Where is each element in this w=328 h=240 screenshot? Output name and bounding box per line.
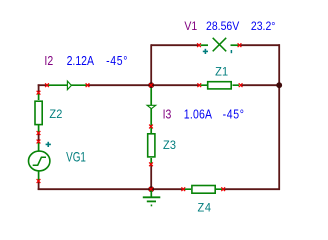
svg-text:28.56V: 28.56V (206, 20, 240, 33)
terminal mark VG1 top (37, 140, 41, 144)
svg-text:I2: I2 (44, 53, 53, 68)
wire below VG1 to bottom corner (38, 182, 40, 191)
terminal mark Z4 left (181, 187, 185, 191)
terminal mark I2 right (86, 83, 90, 87)
wire vertical from top corner down to mid junction (150, 44, 152, 85)
wire left rail top (corner to Z2) (38, 84, 40, 92)
wire top right horizontal (V1 to right rail) (240, 44, 280, 46)
svg-text:Z2: Z2 (49, 108, 62, 122)
svg-text:23.2°: 23.2° (251, 20, 276, 33)
junction dot bottom (148, 186, 154, 192)
svg-text:VG1: VG1 (66, 149, 86, 165)
wire mid between I2 and junction (88, 84, 152, 86)
svg-text:Z3: Z3 (163, 139, 176, 153)
terminal mark Z1 right (239, 83, 243, 87)
wire bottom right (Z4 to right rail) (223, 188, 280, 190)
V1 plus sign (203, 49, 208, 54)
current arrow I3 (147, 86, 156, 126)
current arrow I2 (47, 81, 88, 90)
terminal mark I3 bottom / Z3 top (149, 125, 153, 129)
terminal mark VG1 bottom (37, 179, 41, 183)
resistor Z3 (148, 126, 155, 164)
svg-text:2.12A: 2.12A (67, 53, 94, 68)
wire between Z3 and bottom junction (150, 164, 152, 190)
svg-text:-45°: -45° (223, 106, 245, 121)
wire mid between Z1 and right rail (241, 84, 280, 86)
resistor Z2 (35, 93, 42, 132)
VG1 plus sign (46, 142, 51, 147)
wire bottom left (corner to Z4) (38, 188, 184, 190)
terminal mark Z4 right (221, 187, 225, 191)
terminal mark Z1 left (197, 83, 201, 87)
svg-text:I3: I3 (163, 106, 172, 121)
terminal mark Z2 bottom (37, 131, 41, 135)
svg-text:Z1: Z1 (215, 65, 228, 79)
svg-text:V1: V1 (184, 20, 197, 33)
junction dot mid (148, 82, 154, 88)
terminal mark I2 left (45, 83, 49, 87)
svg-text:Z4: Z4 (198, 201, 212, 215)
terminal mark ground junction (149, 187, 153, 191)
wire between Z2 and VG1 (38, 133, 40, 142)
V1 minus tick (230, 50, 232, 53)
terminal mark I3 top junction (149, 83, 153, 87)
resistor Z4 (184, 186, 223, 194)
terminal mark V1 right (238, 43, 242, 47)
resistor Z1 (201, 82, 240, 89)
wire top left horizontal (node to V1) (151, 44, 199, 46)
wire right rail vertical (278, 44, 280, 190)
svg-text:1.06A: 1.06A (184, 106, 212, 121)
voltage meter V1 symbol (201, 44, 239, 46)
ground (143, 190, 161, 205)
junction dot right rail (276, 82, 282, 88)
voltage generator VG1 (29, 142, 50, 181)
wire mid left stub (corner to I2 terminal) (38, 84, 47, 86)
wire mid between junction and Z1 (151, 84, 199, 86)
terminal mark Z2 top (37, 91, 41, 95)
terminal mark Z3 bottom (149, 162, 153, 166)
terminal mark V1 left (197, 43, 201, 47)
svg-text:-45°: -45° (106, 53, 128, 68)
